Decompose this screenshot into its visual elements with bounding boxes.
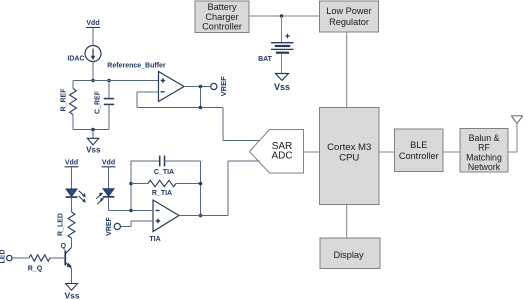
capacitor C_REF: [108, 81, 110, 99]
wire vdd to pd: [108, 167, 110, 189]
wire battery charger to low power regulator: [249, 15, 320, 17]
node ref bottom: [91, 128, 95, 132]
resistor R_Q: [29, 255, 50, 261]
wire cortex to ble: [379, 151, 395, 153]
wire cortex to display: [346, 205, 348, 239]
node u1 fb: [199, 106, 203, 110]
node u1 out: [199, 85, 203, 89]
svg-text:VREF: VREF: [106, 216, 113, 235]
wire ble to balun: [443, 151, 460, 153]
wire u1 output: [184, 86, 211, 88]
wire ref bottom: [73, 129, 109, 131]
svg-text:Q: Q: [61, 243, 67, 250]
terminal VREF in: [114, 223, 120, 229]
block BLE Controller: [395, 129, 444, 172]
wire ref node rail: [73, 80, 159, 82]
svg-text:Vss: Vss: [86, 146, 101, 155]
node tia minus: [129, 209, 133, 213]
svg-text:C_REF: C_REF: [95, 90, 102, 114]
node rtia right: [199, 182, 203, 186]
capacitor C_TIA: [131, 160, 160, 162]
node tia out: [199, 214, 203, 218]
svg-text:IDAC: IDAC: [67, 56, 84, 63]
ground Vss (ref): [92, 130, 94, 139]
svg-text:Vdd: Vdd: [86, 20, 99, 27]
svg-text:R_LED: R_LED: [58, 213, 65, 236]
svg-text:Controller: Controller: [202, 22, 242, 32]
wire tia left rail: [130, 161, 132, 211]
node cref top: [107, 79, 111, 83]
junction battery tap: [280, 14, 284, 18]
wire regulator to cortex: [346, 32, 348, 108]
svg-text:R_REF: R_REF: [61, 88, 68, 112]
svg-text:Vss: Vss: [274, 82, 290, 92]
op-amp U2 TIA: [153, 200, 179, 232]
terminal LED in: [7, 255, 12, 260]
svg-text:Vss: Vss: [64, 291, 79, 300]
svg-text:R_TIA: R_TIA: [152, 190, 172, 197]
op-amp U1 Reference_Buffer: [159, 72, 185, 102]
svg-text:BLE: BLE: [410, 140, 427, 150]
svg-text:C_TIA: C_TIA: [154, 169, 174, 176]
wire led input: [12, 257, 29, 259]
wire balun to antenna: [508, 151, 517, 153]
wire tia right rail: [200, 161, 202, 216]
svg-text:ADC: ADC: [271, 151, 292, 162]
wire led to rled: [71, 197, 73, 212]
svg-text:Vdd: Vdd: [102, 160, 115, 167]
svg-text:CPU: CPU: [339, 152, 359, 163]
wire u1 feedback: [137, 91, 159, 93]
block Cortex M3 CPU: [320, 108, 380, 205]
wire vdd to led: [71, 167, 73, 189]
diode D1 LED: [66, 189, 77, 196]
ground Vss (BAT): [276, 74, 289, 81]
svg-text:Matching: Matching: [466, 152, 502, 162]
node ref top: [91, 79, 95, 83]
svg-text:BAT: BAT: [258, 56, 273, 63]
svg-text:Balun &: Balun &: [469, 133, 500, 143]
svg-text:TIA: TIA: [149, 236, 160, 243]
svg-text:Network: Network: [468, 162, 501, 172]
sar adc converter U3: [250, 130, 304, 174]
wire tia out to sar: [179, 215, 228, 217]
wire pd to tia minus: [108, 197, 110, 211]
wire u1 out rail: [200, 87, 202, 108]
battery BAT: [285, 34, 289, 38]
svg-text:Regulator: Regulator: [329, 17, 369, 27]
resistor R_LED: [68, 212, 75, 238]
wire q emitter to gnd: [71, 269, 73, 284]
svg-text:VREF: VREF: [219, 76, 228, 96]
svg-text:Battery: Battery: [207, 2, 237, 12]
svg-text:Controller: Controller: [399, 151, 439, 161]
block Display: [320, 238, 380, 269]
current source IDAC: [85, 46, 101, 62]
svg-text:RF: RF: [478, 143, 490, 153]
svg-text:Display: Display: [333, 250, 364, 260]
terminal VREF out: [211, 83, 217, 89]
wire base: [50, 257, 65, 259]
wire vdd to idac: [92, 28, 94, 46]
svg-text:Low Power: Low Power: [326, 6, 371, 16]
wire idac to node: [92, 62, 94, 81]
wire vref to tia plus: [121, 226, 132, 228]
resistor R_TIA: [131, 183, 148, 185]
wire battery stem: [281, 16, 283, 42]
block Balun and RF Matching Network: [460, 129, 508, 173]
ground Vss (Q): [66, 284, 78, 291]
block Low Power Regulator: [320, 1, 379, 32]
svg-text:LED: LED: [0, 250, 6, 264]
antenna AT1: [511, 115, 522, 117]
svg-text:Charger: Charger: [205, 12, 238, 22]
svg-text:R_Q: R_Q: [28, 266, 43, 273]
svg-text:Vdd: Vdd: [65, 160, 78, 167]
block Battery Charger Controller: [195, 1, 249, 33]
wire tia minus input: [131, 210, 153, 212]
resistor R_REF: [72, 81, 74, 89]
wire sar adc to cortex: [304, 151, 320, 153]
photodiode D2: [103, 189, 114, 196]
svg-text:Reference_Buffer: Reference_Buffer: [107, 63, 166, 70]
wire vref to sar: [201, 107, 224, 109]
node rtia left: [129, 182, 133, 186]
